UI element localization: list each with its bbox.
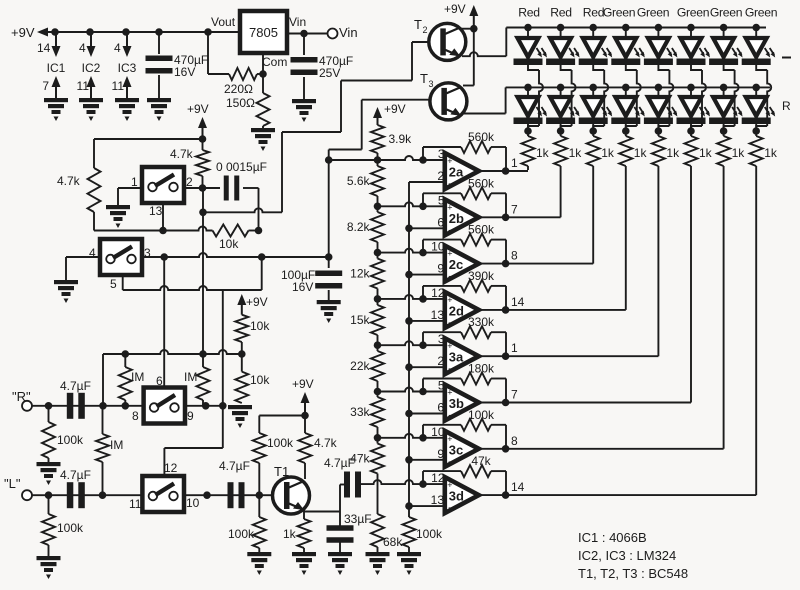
svg-text:4.7k: 4.7k	[314, 436, 338, 450]
node rail2 col6	[687, 84, 695, 92]
svg-text:13: 13	[431, 493, 445, 507]
svg-text:4.7µF: 4.7µF	[60, 379, 91, 393]
svg-text:100k: 100k	[267, 436, 294, 450]
svg-text:+9V: +9V	[246, 295, 268, 309]
svg-text:8: 8	[511, 249, 518, 263]
pin label out 8	[511, 249, 518, 263]
node cathode col7	[720, 127, 728, 135]
pin label 2	[186, 175, 193, 189]
wire osc top	[94, 138, 203, 140]
label +9V osc	[187, 102, 209, 116]
resistor R 68k	[371, 514, 384, 552]
node cathode col5	[655, 127, 663, 135]
svg-text:1k: 1k	[283, 527, 297, 541]
wire 3d out	[479, 494, 756, 496]
wire 470uF to gnd	[158, 75, 160, 98]
svg-text:+: +	[447, 480, 452, 490]
svg-text:+9V: +9V	[292, 377, 314, 391]
wire 2b out	[479, 216, 561, 218]
wire 3c +input	[378, 434, 445, 438]
label 10k low	[250, 373, 270, 387]
IC3 pin arrow down	[123, 46, 132, 57]
wire IC2 gnd stub	[90, 87, 92, 98]
svg-text:+9V: +9V	[384, 102, 406, 116]
svg-text:-: -	[448, 317, 451, 327]
label IC2	[82, 61, 101, 75]
label fb 100k	[468, 408, 495, 422]
wire sw13 ctrl	[162, 203, 164, 231]
capacitor C 0.0015uF	[224, 176, 240, 201]
svg-text:+: +	[447, 295, 452, 305]
resistor R fb 560k	[461, 141, 491, 153]
svg-text:8: 8	[132, 409, 139, 423]
wire L row right	[184, 494, 259, 496]
wire 33uF stub	[339, 512, 341, 529]
wire 3c riser	[723, 170, 725, 449]
wire y354 row	[103, 350, 242, 354]
svg-text:-: -	[448, 225, 451, 235]
svg-text:Green: Green	[677, 6, 709, 20]
svg-text:+9V: +9V	[11, 25, 35, 40]
node IM c bot	[99, 491, 107, 499]
svg-text:1k: 1k	[764, 146, 778, 160]
LED D top 7	[709, 28, 743, 66]
wire T2 drive vert	[202, 188, 204, 354]
ground 100uF	[317, 300, 341, 323]
svg-text:11: 11	[129, 497, 142, 511]
pin label 13	[431, 493, 445, 507]
svg-text:4: 4	[114, 41, 121, 55]
wire left 4.7k top	[93, 139, 95, 168]
wire 150 gnd	[262, 126, 264, 130]
node cathode col2	[557, 127, 565, 135]
svg-text:560k: 560k	[468, 130, 495, 144]
resistor R 47k	[371, 444, 384, 474]
wire T2 drive staircase	[203, 42, 429, 212]
resistor R 1M a	[119, 354, 132, 406]
LED D top 1	[514, 28, 548, 66]
svg-text:3d: 3d	[449, 489, 464, 504]
wire 470uF25 stub	[303, 34, 305, 56]
label 470uF25	[319, 54, 353, 68]
resistor R 1k col6	[685, 124, 698, 170]
svg-text:1k: 1k	[536, 146, 550, 160]
svg-text:22k: 22k	[350, 359, 370, 373]
capacitor C 470uF 16V	[146, 56, 173, 74]
label fb 560k	[468, 130, 495, 144]
svg-text:Com: Com	[262, 55, 287, 69]
ground 68k	[366, 552, 390, 575]
svg-text:47k: 47k	[350, 452, 370, 466]
resistor R 10k up	[235, 315, 248, 354]
label LED Red 1	[518, 6, 539, 20]
wire jog col2	[561, 65, 576, 131]
resistor R 1M c	[96, 406, 109, 495]
label 68k	[383, 535, 403, 549]
wire out cap riser	[339, 485, 341, 512]
regulator U 7805	[240, 11, 287, 53]
pin label 9	[187, 409, 194, 423]
wire jog col1	[528, 65, 543, 131]
wire 3a out	[479, 355, 659, 357]
+9V arrow T2	[469, 5, 478, 29]
wire T3 collector	[463, 85, 474, 87]
pin label 11	[112, 79, 125, 93]
wire sw13 pin1	[118, 188, 142, 205]
pin label 1	[131, 175, 138, 189]
label IC1	[47, 61, 66, 75]
node L mid	[203, 491, 211, 499]
label IC3	[118, 61, 137, 75]
svg-text:10k: 10k	[250, 319, 270, 333]
pin label 6	[156, 374, 163, 388]
label 12k	[350, 267, 370, 281]
wire ladder segments	[377, 153, 379, 514]
label 12	[164, 461, 178, 475]
svg-text:1k: 1k	[732, 146, 746, 160]
node tap 1	[374, 156, 382, 164]
node rail junction	[122, 28, 130, 36]
pin label 11	[77, 79, 90, 93]
wire 2c -input	[409, 274, 445, 276]
node y354 a	[122, 350, 130, 358]
label 10k mid	[219, 237, 239, 251]
label 1k col6	[699, 146, 713, 160]
label fb 390k	[468, 269, 495, 283]
label IM c	[110, 438, 123, 452]
resistor R 1k col2	[554, 124, 567, 170]
svg-text:12k: 12k	[350, 267, 370, 281]
wire IC3 supply stub	[126, 32, 128, 47]
LED D bot 5	[644, 87, 678, 124]
label 22k	[350, 359, 370, 373]
wire sw12 ctrl	[164, 448, 222, 476]
LED D bot 2	[546, 87, 580, 124]
svg-text:-: -	[448, 410, 451, 420]
wire out cap stub	[340, 484, 344, 486]
label IC2 IC3 LM324	[578, 548, 676, 563]
node 3d fb	[419, 480, 427, 488]
label 220	[224, 82, 253, 96]
node tap 3	[374, 249, 382, 257]
label 1k col3	[601, 146, 615, 160]
wire 33uF gnd	[339, 541, 341, 552]
wire cap0015 right	[243, 188, 259, 231]
label 33uF	[344, 512, 372, 526]
wire 2b +input	[378, 202, 445, 206]
node tap 4	[374, 295, 382, 303]
node bus 2	[405, 271, 413, 279]
ground 100k Lin	[37, 556, 61, 579]
label 150	[226, 96, 255, 110]
wire 2b fb	[423, 193, 506, 217]
wire cap0015 left	[203, 187, 221, 189]
svg-text:4.7k: 4.7k	[57, 174, 81, 188]
svg-text:3b: 3b	[449, 396, 464, 411]
wire 3b riser	[690, 170, 692, 403]
resistor R 220	[229, 68, 263, 80]
svg-text:180k: 180k	[468, 362, 495, 376]
svg-text:100k: 100k	[416, 527, 443, 541]
pin label 4	[114, 41, 121, 55]
svg-text:16V: 16V	[174, 65, 195, 79]
node cathode col8	[752, 127, 760, 135]
ground IC3	[115, 98, 139, 121]
svg-text:14: 14	[37, 41, 51, 55]
ground 100k bus	[397, 552, 421, 575]
node IM b bot	[202, 402, 210, 410]
wire T1 base	[259, 494, 273, 496]
label LED Green 5	[637, 6, 669, 20]
node y354 c	[238, 350, 246, 358]
pin label out 14	[511, 295, 525, 309]
svg-text:16V: 16V	[292, 280, 313, 294]
svg-text:100k: 100k	[57, 521, 84, 535]
wire 3a riser	[657, 170, 659, 356]
label fb 330k	[468, 315, 495, 329]
wire 3d fb	[423, 471, 506, 495]
power +9V arrow	[37, 28, 52, 37]
node 2b fb	[419, 203, 427, 211]
node 2c fb	[419, 249, 427, 257]
svg-text:33k: 33k	[350, 405, 370, 419]
node 3b out	[502, 399, 510, 407]
label IM a	[131, 370, 144, 384]
wire 3c -input	[409, 459, 445, 461]
LED D bot 7	[709, 87, 743, 124]
pin label out 7	[511, 202, 518, 216]
transistor Q T1	[273, 477, 310, 514]
node rail1 col1	[524, 24, 532, 32]
svg-text:IC1: IC1	[47, 61, 66, 75]
label IC1 4066B	[578, 530, 647, 545]
label LED Red 2	[550, 6, 571, 20]
op-amp U 2d	[445, 292, 479, 328]
wire 470uF25 gnd	[303, 77, 305, 99]
wire jog col6	[691, 65, 706, 131]
svg-text:2b: 2b	[449, 211, 464, 226]
svg-text:12: 12	[164, 461, 178, 475]
terminal R	[22, 401, 32, 411]
wire sw5 ctrl row	[123, 286, 262, 290]
resistor R 8.2k	[371, 212, 384, 242]
pin label 7	[42, 79, 49, 93]
svg-text:5: 5	[110, 277, 117, 291]
svg-text:3c: 3c	[449, 442, 463, 457]
pin label 3	[438, 332, 445, 346]
node bus 5	[405, 410, 413, 418]
pin label 9	[437, 262, 444, 276]
svg-text:Red: Red	[518, 6, 539, 20]
wire 7805 out	[287, 33, 328, 35]
label 100k T1dn	[228, 527, 255, 541]
wire sw5 pin3	[142, 253, 329, 257]
wire LED rail2	[506, 86, 770, 88]
node bus 3	[405, 317, 413, 325]
label T2	[414, 17, 428, 35]
ground 470uF25	[292, 99, 316, 122]
node rail junction	[51, 28, 59, 36]
resistor R 1k col4	[619, 124, 632, 170]
node cathode col4	[622, 127, 630, 135]
label 100uF	[281, 268, 315, 282]
svg-text:Green: Green	[637, 6, 669, 20]
resistor R 1k col8	[750, 124, 763, 170]
wire 100uF gnd	[328, 290, 330, 300]
+9V arrow 10k	[237, 294, 246, 315]
resistor R 1M b	[197, 354, 210, 406]
node 3a out	[502, 352, 510, 360]
svg-text:T: T	[414, 17, 422, 32]
wire T3 emitter	[463, 87, 506, 113]
pin label 5	[110, 277, 117, 291]
node R im	[122, 402, 130, 410]
pin label out 8	[511, 434, 518, 448]
label R right	[782, 99, 791, 113]
node 2a out	[502, 167, 510, 175]
node 3b fb	[419, 388, 427, 396]
resistor R fb 330k	[461, 326, 491, 338]
node tap 5	[374, 341, 382, 349]
label C4.7uF R	[60, 379, 91, 393]
label Com	[262, 55, 287, 69]
node rail1 col7	[720, 24, 728, 32]
capacitor C 470uF16V wire	[158, 32, 160, 54]
svg-text:14: 14	[511, 480, 525, 494]
wire 3a fb	[423, 332, 506, 356]
svg-text:Vin: Vin	[339, 25, 358, 40]
wire sw5 ctrl up	[122, 275, 124, 290]
resistor R 100k T1up	[253, 416, 266, 496]
pin label 8	[132, 409, 139, 423]
node L junction	[45, 491, 53, 499]
wire signal bus	[408, 182, 410, 517]
LED D top 2	[546, 28, 580, 66]
node 2d out	[502, 306, 510, 314]
capacitor C 470uF 25V	[291, 57, 318, 75]
wire sw5 pin4	[66, 257, 100, 280]
wire 3a +input	[378, 341, 445, 345]
svg-text:2c: 2c	[449, 257, 463, 272]
label 1k col8	[764, 146, 778, 160]
node T2 drive	[199, 209, 207, 217]
transistor Q T3	[430, 83, 467, 120]
node rail2 col8	[752, 84, 760, 92]
svg-text:68k: 68k	[383, 535, 403, 549]
wire Com down	[262, 53, 264, 74]
label 100k Rin	[57, 433, 84, 447]
svg-text:+: +	[447, 341, 452, 351]
label C4.7uF mid	[219, 459, 250, 473]
svg-text:13: 13	[431, 308, 445, 322]
wire IC2 supply stub	[90, 32, 92, 47]
label LED Red 3	[583, 6, 604, 20]
node osc 9V	[199, 135, 207, 143]
switch U1b 5	[100, 239, 142, 275]
resistor R 1k T1	[298, 510, 311, 552]
label +9V T2	[444, 2, 466, 16]
resistor R fb 560k	[461, 234, 491, 246]
label T1	[274, 464, 289, 479]
wire sw6 ctrl	[163, 257, 165, 387]
svg-text:10: 10	[186, 496, 200, 510]
label +9V 10k	[246, 295, 268, 309]
pin label out 1	[511, 341, 518, 355]
resistor R 12k	[371, 259, 384, 289]
wire 2b riser	[560, 170, 562, 217]
svg-text:IM: IM	[184, 370, 197, 384]
node T1 base	[255, 491, 263, 499]
label C4.7uF L	[60, 468, 91, 482]
svg-text:2a: 2a	[449, 165, 464, 180]
node rail2 col3	[589, 84, 597, 92]
label 100k bus	[416, 527, 443, 541]
label LED Green 4	[603, 6, 635, 20]
resistor R 22k	[371, 351, 384, 381]
LED D bot 8	[742, 87, 776, 124]
resistor R 150	[257, 74, 270, 126]
wire 2d fb	[423, 286, 506, 310]
label fb 560k	[468, 223, 495, 237]
svg-text:7: 7	[511, 202, 518, 216]
wire left 4.7k bot	[93, 212, 95, 231]
pin label 3	[438, 147, 445, 161]
svg-text:+: +	[447, 202, 452, 212]
IC2 pin arrow down	[87, 46, 96, 57]
power +9V label	[11, 25, 35, 40]
node rail junction	[155, 28, 163, 36]
wire 100uF vert	[328, 150, 330, 269]
svg-text:1: 1	[131, 175, 138, 189]
node 13 ctrl	[159, 227, 167, 235]
node x103	[99, 402, 107, 410]
LED D bot 1	[514, 87, 548, 124]
label Vout	[211, 15, 236, 29]
label 16V cap	[292, 280, 313, 294]
node rail1 col6	[687, 24, 695, 32]
wire 2b -input	[409, 227, 445, 229]
svg-text:11: 11	[112, 79, 125, 93]
svg-text:-: -	[448, 456, 451, 466]
node bus 4	[405, 363, 413, 371]
node tap1 link	[325, 156, 333, 164]
svg-text:7805: 7805	[249, 25, 278, 40]
svg-text:2: 2	[186, 175, 193, 189]
wire 3b +input	[378, 388, 445, 392]
svg-text:T: T	[420, 71, 428, 86]
node bus 7	[405, 502, 413, 510]
label T1 T2 T3 BC548	[578, 566, 688, 581]
pin label 9	[437, 447, 444, 461]
capacitor C 4.7uF R	[67, 393, 85, 419]
label 1k T1	[283, 527, 297, 541]
wire jog col4	[626, 65, 641, 131]
svg-text:25V: 25V	[319, 66, 340, 80]
svg-text:4.7k: 4.7k	[170, 147, 194, 161]
ground sw5	[54, 280, 78, 303]
resistor R 3.9k	[371, 125, 384, 153]
op-amp U 3d	[445, 477, 479, 513]
label LED Green 6	[677, 6, 709, 20]
resistor R fb 47k	[461, 465, 491, 477]
svg-text:330k: 330k	[468, 315, 495, 329]
resistor R 4.7k left	[88, 168, 101, 212]
node rail1 col5	[655, 24, 663, 32]
svg-text:8.2k: 8.2k	[347, 220, 371, 234]
wire 100k Rin	[48, 406, 50, 462]
svg-text:7: 7	[511, 388, 518, 402]
label 1k col7	[732, 146, 746, 160]
